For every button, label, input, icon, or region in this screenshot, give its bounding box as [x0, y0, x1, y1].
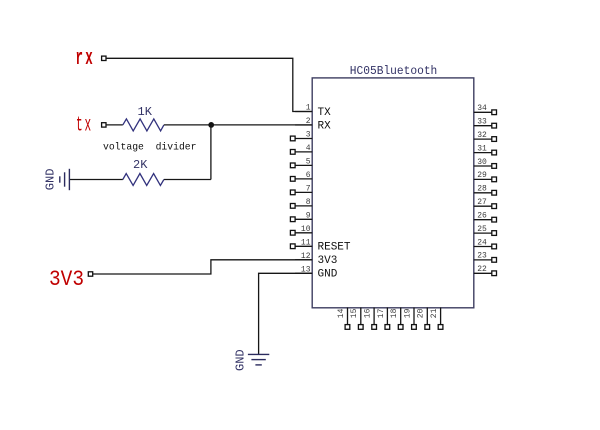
resistor R1 1K: [123, 119, 164, 131]
ground GND left: [60, 169, 70, 190]
svg-text:29: 29: [477, 171, 487, 180]
svg-text:HC05Bluetooth: HC05Bluetooth: [350, 64, 438, 78]
pin square 3V3: [88, 272, 92, 276]
pin 11 RESET: [290, 239, 351, 254]
svg-text:RESET: RESET: [318, 242, 351, 254]
svg-text:26: 26: [477, 212, 487, 221]
pin 15: [350, 308, 363, 330]
svg-text:30: 30: [477, 158, 487, 167]
svg-text:20: 20: [417, 308, 426, 318]
wire junction to pin 2: [211, 124, 312, 126]
svg-text:GND: GND: [43, 169, 57, 191]
pin 27: [474, 198, 497, 209]
svg-text:27: 27: [477, 198, 487, 207]
wire R2 right lead: [164, 179, 211, 181]
svg-text:3V3: 3V3: [49, 267, 84, 292]
pin 1 TX: [295, 104, 331, 119]
pin 2 RX: [295, 117, 331, 132]
pin 32: [474, 131, 497, 142]
svg-text:21: 21: [430, 308, 439, 318]
svg-text:1K: 1K: [138, 105, 153, 119]
pin 33: [474, 118, 497, 129]
svg-text:9: 9: [306, 212, 311, 221]
svg-text:12: 12: [301, 252, 311, 261]
svg-text:5: 5: [306, 158, 311, 167]
svg-text:24: 24: [477, 238, 487, 247]
pin 7: [290, 185, 312, 195]
svg-text:rx: rx: [76, 46, 96, 71]
svg-text:25: 25: [477, 225, 487, 234]
pin 19: [403, 308, 416, 330]
pin 20: [417, 308, 430, 330]
svg-text:tx: tx: [76, 115, 93, 138]
svg-text:11: 11: [301, 239, 311, 248]
svg-text:33: 33: [477, 118, 487, 127]
ground label GND left: [43, 169, 57, 191]
net label 3V3: [49, 267, 84, 292]
wire 3V3 to pin 12: [93, 260, 313, 274]
pin 31: [474, 144, 497, 155]
pin 29: [474, 171, 497, 182]
pin 16: [364, 308, 377, 330]
text voltage divider: [103, 142, 197, 154]
ground GND bottom: [248, 354, 269, 365]
svg-text:19: 19: [403, 308, 412, 318]
pin 28: [474, 185, 497, 195]
pin square rx: [102, 56, 106, 60]
resistor R2 2K: [123, 174, 164, 186]
svg-text:15: 15: [350, 308, 359, 318]
svg-text:3: 3: [306, 131, 311, 140]
junction node: [208, 122, 214, 128]
svg-text:GND: GND: [318, 269, 338, 281]
svg-text:1: 1: [306, 104, 311, 113]
wire tx to R1: [106, 124, 123, 126]
svg-text:17: 17: [377, 308, 386, 318]
svg-text:8: 8: [306, 198, 311, 207]
wire junction down to R2 row: [210, 125, 212, 180]
pin 18: [390, 308, 403, 330]
pin 12 3V3: [295, 252, 337, 267]
svg-text:GND: GND: [234, 349, 248, 371]
pin 25: [474, 225, 497, 236]
pin 30: [474, 158, 497, 169]
pin 34: [474, 104, 497, 115]
svg-text:3V3: 3V3: [318, 255, 338, 267]
pin 6: [290, 171, 312, 181]
svg-text:TX: TX: [318, 107, 332, 119]
svg-text:voltage divider: voltage divider: [103, 142, 197, 154]
IC U1 HC05Bluetooth body: [312, 78, 474, 308]
svg-text:23: 23: [477, 252, 487, 261]
pin 3: [290, 131, 312, 141]
pin 10: [290, 225, 312, 235]
pin 14: [337, 308, 350, 330]
pin square tx: [102, 123, 106, 127]
wire R1 to junction: [164, 124, 211, 126]
pin 8: [290, 198, 312, 208]
pin 4: [290, 144, 312, 154]
pin 9: [290, 212, 312, 222]
net label tx: [76, 115, 93, 138]
svg-text:13: 13: [301, 266, 311, 275]
pin 26: [474, 212, 497, 223]
svg-text:10: 10: [301, 225, 311, 234]
svg-text:7: 7: [306, 185, 311, 194]
wire rx net to pin 1: [106, 58, 312, 111]
svg-text:32: 32: [477, 131, 487, 140]
svg-text:RX: RX: [318, 120, 332, 132]
svg-text:18: 18: [390, 308, 399, 318]
pin 13 GND: [295, 266, 338, 281]
IC name HC05Bluetooth: [350, 64, 438, 78]
wire R2 to ground: [69, 179, 122, 181]
value label 2K: [133, 158, 148, 172]
net label rx: [76, 46, 96, 71]
pin 21: [430, 308, 443, 330]
pin 5: [290, 158, 312, 168]
svg-text:2: 2: [306, 117, 311, 126]
svg-text:2K: 2K: [133, 158, 148, 172]
svg-text:4: 4: [306, 144, 311, 153]
svg-text:14: 14: [337, 308, 346, 318]
pin 17: [377, 308, 390, 330]
svg-text:6: 6: [306, 171, 311, 180]
pin 24: [474, 238, 497, 249]
ground label GND bottom: [234, 349, 248, 371]
svg-text:16: 16: [364, 308, 373, 318]
value label 1K: [138, 105, 153, 119]
svg-text:34: 34: [477, 104, 487, 113]
wire pin 13 to ground: [259, 273, 313, 354]
svg-text:22: 22: [477, 265, 487, 274]
svg-text:31: 31: [477, 144, 487, 153]
pin 23: [474, 252, 497, 263]
pin 22: [474, 265, 497, 276]
svg-text:28: 28: [477, 185, 487, 194]
